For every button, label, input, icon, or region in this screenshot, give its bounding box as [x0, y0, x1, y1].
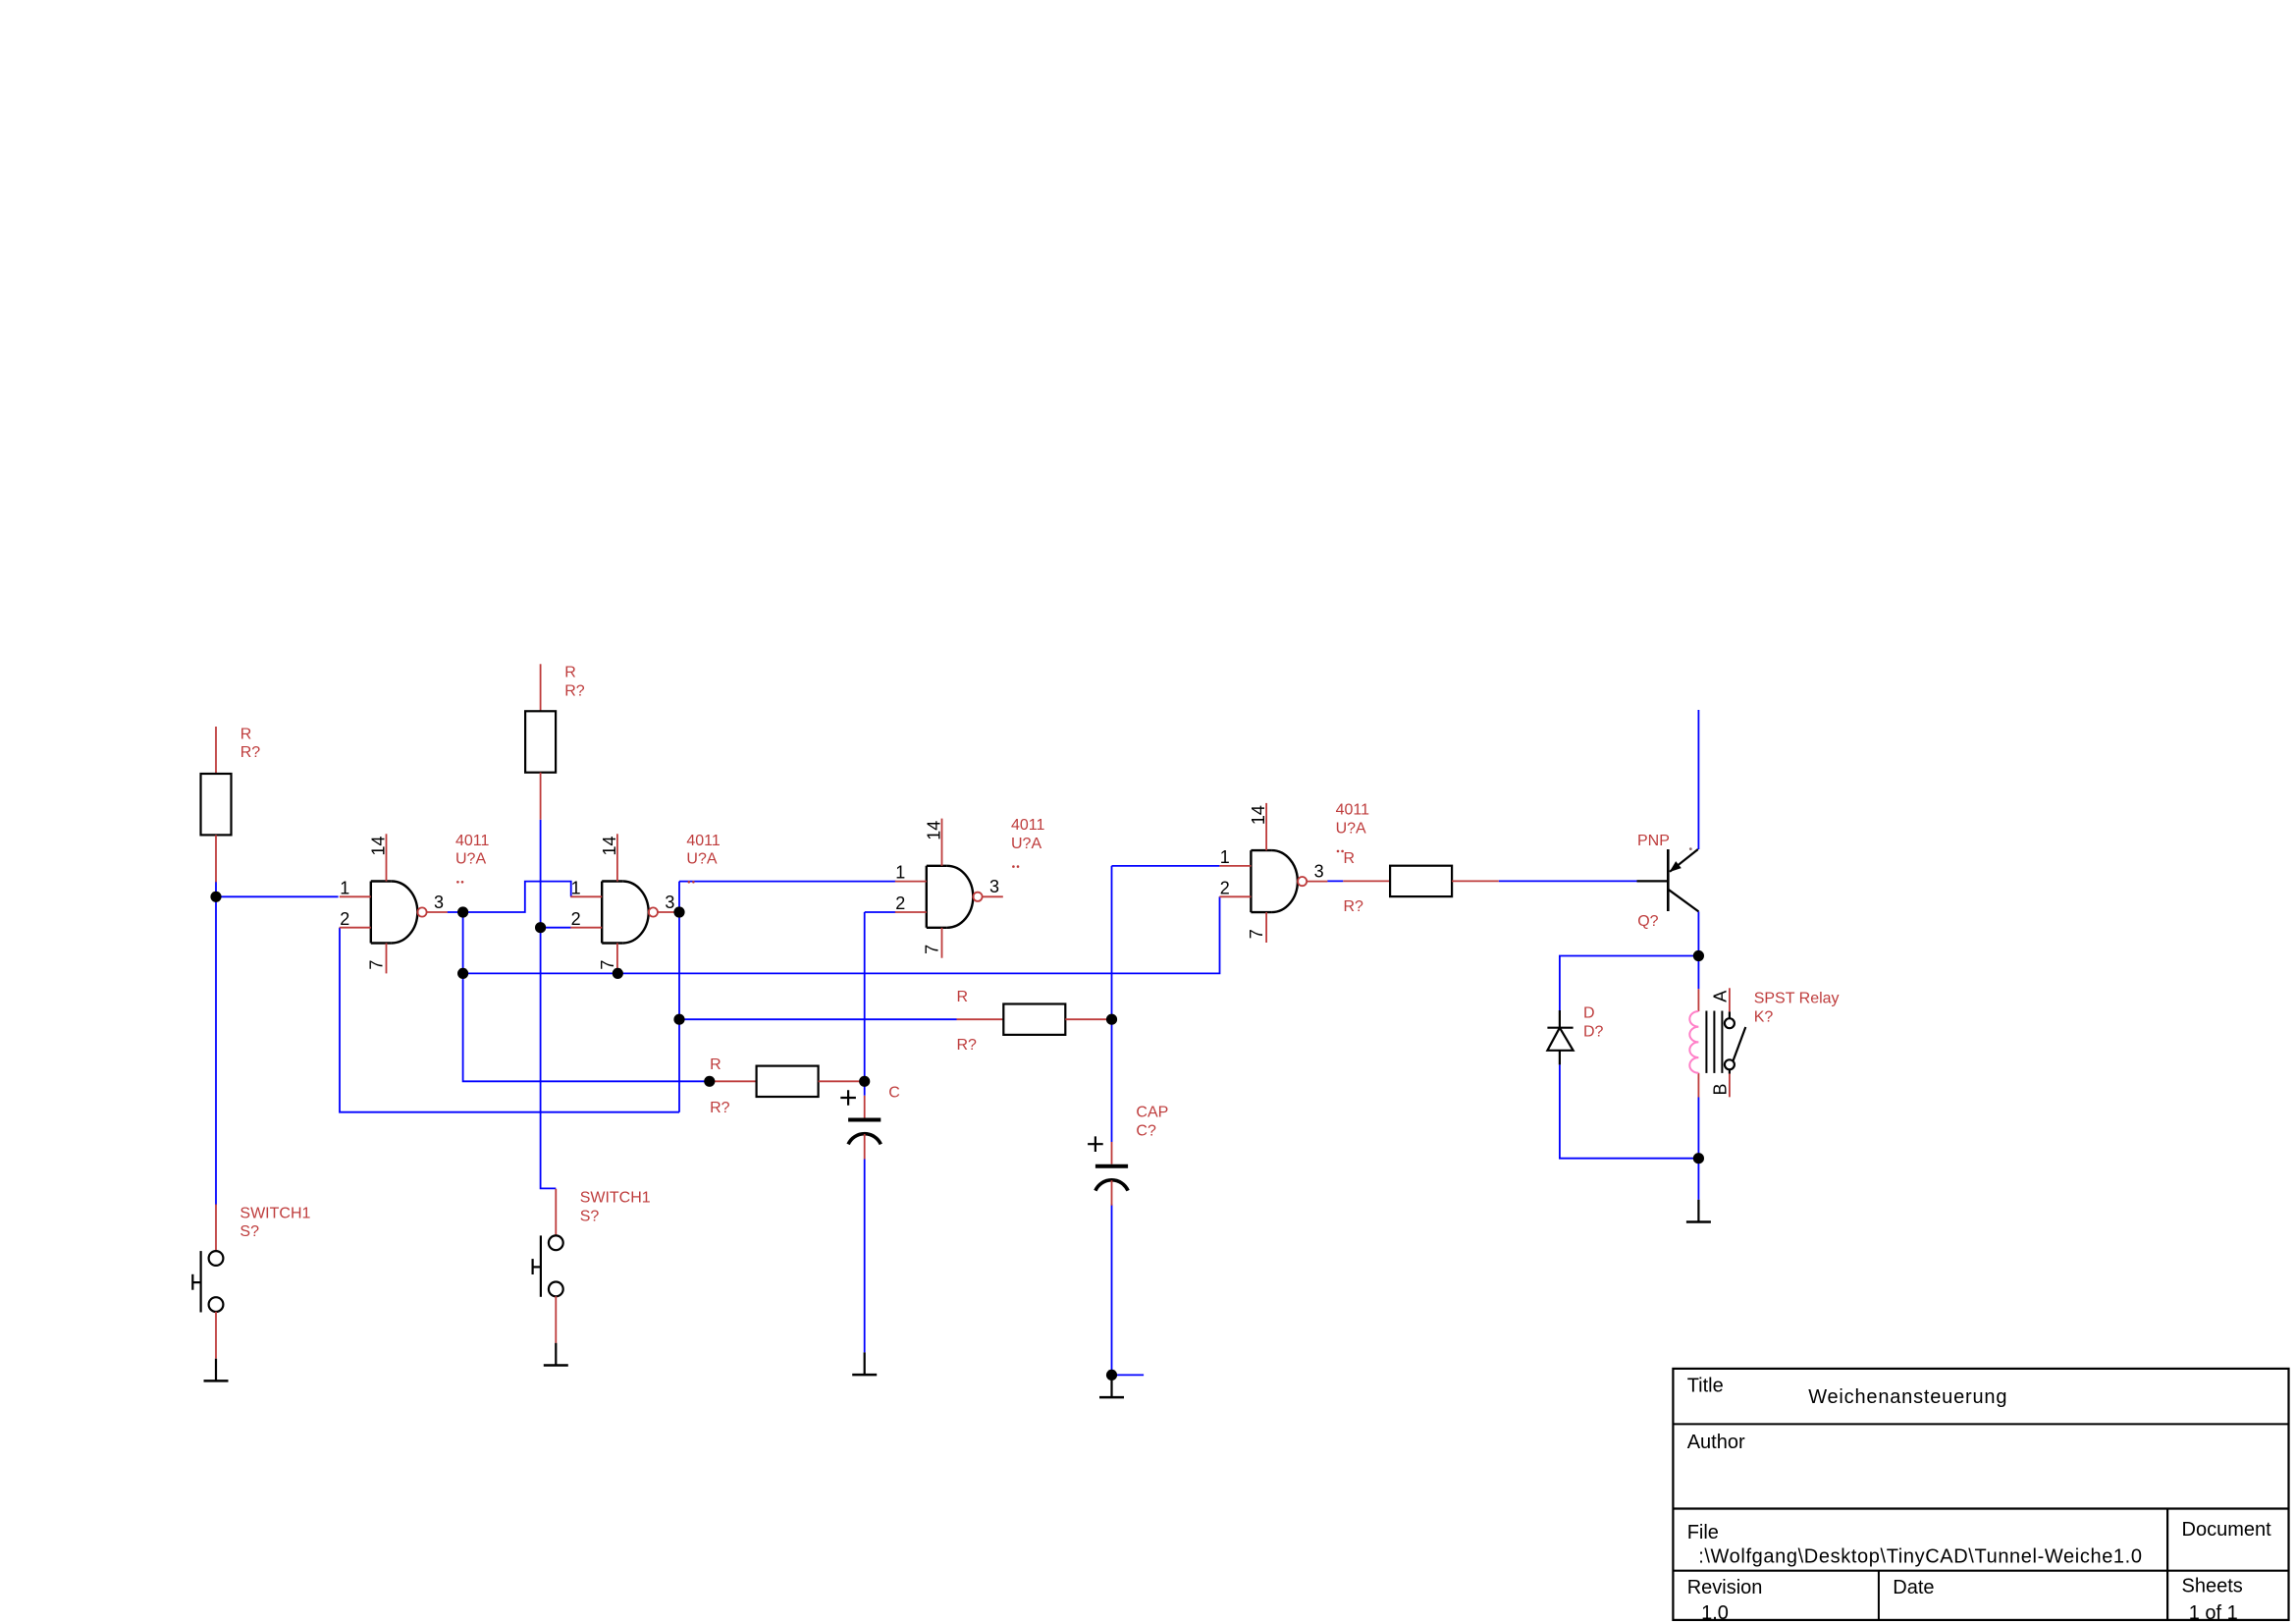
svg-text:Weichenansteuerung: Weichenansteuerung	[1808, 1386, 2007, 1408]
svg-text:R?: R?	[1344, 898, 1364, 915]
svg-text:R: R	[240, 726, 252, 742]
svg-text:A: A	[1711, 991, 1731, 1002]
svg-text:Date: Date	[1893, 1577, 1934, 1598]
svg-text:C: C	[888, 1084, 900, 1101]
svg-text:Q?: Q?	[1637, 913, 1658, 930]
svg-text:Author: Author	[1687, 1432, 1745, 1453]
svg-text:R: R	[1344, 850, 1356, 867]
svg-text:R?: R?	[240, 744, 261, 761]
svg-text:R?: R?	[710, 1100, 730, 1116]
svg-text:B: B	[1711, 1083, 1731, 1095]
svg-text:Document: Document	[2182, 1519, 2272, 1541]
svg-text:R: R	[957, 989, 969, 1005]
svg-text:Revision: Revision	[1687, 1577, 1763, 1598]
svg-text:Title: Title	[1687, 1376, 1724, 1397]
svg-text:1 of 1: 1 of 1	[2189, 1602, 2238, 1624]
svg-text:D: D	[1583, 1005, 1595, 1022]
svg-text:File: File	[1687, 1522, 1719, 1543]
svg-text::\Wolfgang\Desktop\TinyCAD\Tun: :\Wolfgang\Desktop\TinyCAD\Tunnel-Weiche…	[1698, 1546, 2142, 1568]
svg-text:1.0: 1.0	[1701, 1602, 1729, 1624]
svg-text:PNP: PNP	[1637, 833, 1670, 849]
svg-text:R: R	[564, 665, 576, 681]
svg-text:C?: C?	[1136, 1123, 1156, 1140]
svg-text:CAP: CAP	[1136, 1105, 1168, 1121]
svg-text:R?: R?	[957, 1037, 978, 1054]
svg-text:D?: D?	[1583, 1024, 1604, 1041]
svg-text:Sheets: Sheets	[2182, 1576, 2243, 1597]
svg-text:SPST Relay: SPST Relay	[1754, 991, 1840, 1007]
svg-text:R: R	[710, 1056, 721, 1073]
svg-text:K?: K?	[1754, 1008, 1774, 1025]
svg-text:R?: R?	[564, 682, 585, 699]
